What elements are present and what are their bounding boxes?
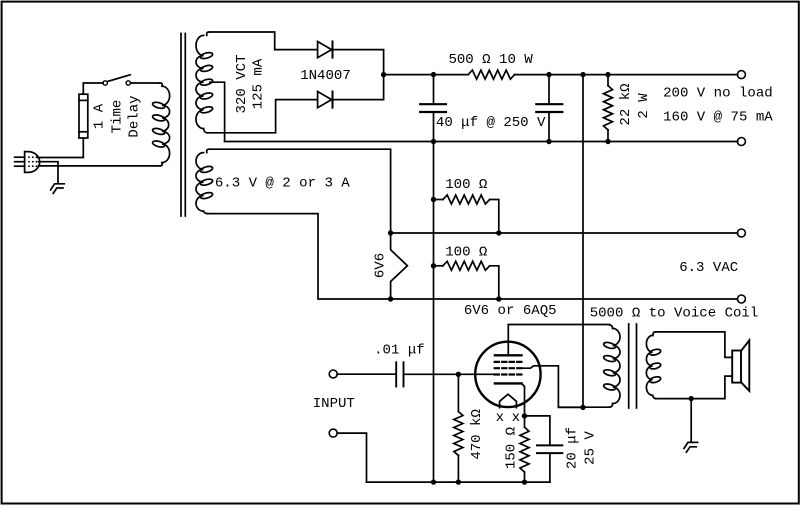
svg-text:470 kΩ: 470 kΩ bbox=[469, 409, 485, 460]
wire HV top to diode D1 bbox=[209, 32, 317, 50]
label 22 kΩ 2 W bbox=[618, 83, 652, 126]
svg-text:125 mA: 125 mA bbox=[250, 58, 266, 109]
wire screen feed vertical bbox=[582, 75, 584, 408]
node R2 bottom bbox=[605, 139, 610, 144]
svg-text:150 Ω: 150 Ω bbox=[504, 426, 520, 469]
wire plug neutral to transformer primary bbox=[39, 165, 160, 167]
wire 6.3V bottom lead to heater rail bottom bbox=[207, 214, 737, 299]
svg-text:100 Ω: 100 Ω bbox=[445, 245, 488, 261]
terminal 6.3VAC bottom bbox=[737, 295, 745, 303]
svg-text:1N4007: 1N4007 bbox=[300, 68, 351, 84]
wire D2 to junction bbox=[333, 75, 383, 100]
node cathode junction bbox=[522, 413, 527, 418]
node C1 top bbox=[431, 72, 436, 77]
svg-text:x: x bbox=[496, 410, 504, 426]
svg-text:Delay: Delay bbox=[126, 95, 142, 137]
resistor R5 470k grid leak bbox=[454, 374, 463, 482]
node heater rail bottom left bbox=[388, 296, 393, 301]
wire ground drop to amplifier bus bbox=[433, 142, 435, 483]
wire ground rail bbox=[225, 141, 738, 143]
svg-text:6.3 VAC: 6.3 VAC bbox=[679, 260, 738, 276]
wire plug hot to fuse bbox=[38, 138, 84, 158]
output terminal B+ bbox=[737, 71, 745, 79]
svg-text:160 V @ 75 mA: 160 V @ 75 mA bbox=[663, 109, 773, 125]
node R4 left bbox=[431, 263, 436, 268]
output terminal ground bbox=[737, 138, 745, 146]
resistor R2 22k bleeder bbox=[604, 75, 613, 142]
svg-text:22 kΩ: 22 kΩ bbox=[618, 83, 634, 126]
T1 high voltage secondary 320 VCT bbox=[196, 32, 213, 133]
wire B+ top rail (right of R1) bbox=[515, 74, 738, 76]
svg-text:500 Ω 10 W: 500 Ω 10 W bbox=[448, 52, 533, 68]
node R3 left bbox=[431, 197, 436, 202]
svg-text:6V6: 6V6 bbox=[372, 253, 388, 278]
T2 core bbox=[629, 324, 637, 408]
resistor R1 500 ohm bbox=[468, 70, 514, 79]
wire speaker ground bbox=[690, 399, 692, 442]
fuse F1 bbox=[79, 94, 88, 138]
resistor R4 100 ohm bbox=[434, 261, 499, 299]
label 20 μf 25 V bbox=[565, 427, 599, 469]
diode D2 1N4007 bbox=[318, 92, 333, 108]
svg-text:2 W: 2 W bbox=[636, 93, 652, 119]
wire center tap to ground rail bbox=[210, 82, 225, 141]
heater connection marks bbox=[496, 410, 521, 426]
wire plug ground bbox=[39, 162, 59, 184]
wire T2 secondary bottom to speaker bbox=[656, 376, 733, 399]
tube V1 plate bbox=[495, 354, 522, 356]
capacitor C4 20uF bypass bbox=[525, 416, 563, 482]
wire HV bottom to diode D2 bbox=[207, 100, 317, 133]
resistor R3 100 ohm bbox=[434, 195, 499, 233]
wire J2 to ground bus bbox=[337, 433, 366, 482]
svg-text:1 A: 1 A bbox=[91, 103, 107, 129]
input terminal J2 bbox=[329, 429, 337, 437]
output transformer T2 primary bbox=[603, 325, 620, 407]
svg-text:INPUT: INPUT bbox=[313, 396, 355, 412]
node heater rail top left bbox=[388, 230, 393, 235]
node bus / C1 line bbox=[431, 479, 436, 484]
node grid / R5 bbox=[456, 372, 461, 377]
tube V1 cathode bbox=[495, 382, 522, 384]
speaker LS1 bbox=[732, 340, 749, 391]
wire screen grid to B+ feed bbox=[522, 366, 581, 408]
label 320 VCT 125 mA bbox=[234, 54, 266, 113]
node bus / R5 bbox=[456, 479, 461, 484]
wire heater rail top bbox=[391, 232, 738, 234]
svg-text:x: x bbox=[512, 410, 520, 426]
T1 filament winding 6.3V bbox=[196, 149, 213, 213]
node R3 to rail bbox=[496, 230, 501, 235]
capacitor C1 40uF bbox=[420, 75, 446, 142]
node R2 top bbox=[605, 72, 610, 77]
tube V1 envelope bbox=[475, 342, 540, 407]
node screen feed / OT primary bbox=[580, 405, 585, 410]
terminal 6.3VAC top bbox=[737, 229, 745, 237]
wire cap to grid bbox=[404, 373, 494, 375]
svg-text:40 μf @ 250 V: 40 μf @ 250 V bbox=[436, 115, 546, 131]
AC plug bbox=[15, 152, 40, 173]
wire cathode lead bbox=[522, 383, 525, 416]
T2 secondary bbox=[646, 332, 661, 399]
node speaker ground bbox=[689, 396, 694, 401]
transformer T1 core bbox=[181, 34, 185, 217]
node R4 to rail bbox=[496, 296, 501, 301]
capacitor C2 40uF bbox=[536, 75, 562, 142]
wire T2 secondary top to speaker bbox=[656, 332, 733, 358]
wire T2 primary bottom to node bbox=[558, 406, 609, 408]
wire J1 to coupling cap bbox=[337, 373, 395, 375]
svg-text:6.3 V @ 2 or 3 A: 6.3 V @ 2 or 3 A bbox=[215, 176, 350, 192]
svg-text:.01 μf: .01 μf bbox=[374, 342, 425, 358]
6V6 heater element bbox=[391, 233, 408, 299]
tube V1 heater bbox=[500, 394, 517, 407]
svg-text:20 μf: 20 μf bbox=[565, 427, 581, 469]
node rectifier junction bbox=[381, 72, 386, 77]
transformer T1 primary winding bbox=[152, 83, 170, 166]
svg-text:6V6 or 6AQ5: 6V6 or 6AQ5 bbox=[464, 303, 557, 319]
svg-text:100 Ω: 100 Ω bbox=[445, 177, 488, 193]
chassis ground at plug bbox=[51, 184, 65, 194]
resistor R6 150 ohm cathode bbox=[520, 416, 529, 482]
wire fuse to switch bbox=[83, 83, 103, 94]
wire switch to primary bbox=[131, 82, 160, 84]
wire ground bus bbox=[367, 481, 550, 483]
diode D1 1N4007 bbox=[318, 42, 333, 58]
tube V1 grids bbox=[495, 362, 522, 375]
capacitor C3 .01uF coupling bbox=[396, 362, 403, 386]
chassis ground at speaker bbox=[684, 442, 698, 452]
input terminal J1 bbox=[329, 370, 337, 378]
wire plate lead bbox=[508, 325, 610, 356]
svg-text:200 V no load: 200 V no load bbox=[663, 86, 773, 102]
label 1 A Time Delay bbox=[91, 95, 142, 137]
wire D1 to junction bbox=[333, 50, 383, 75]
svg-text:320 VCT: 320 VCT bbox=[234, 54, 250, 113]
switch S1 bbox=[103, 75, 131, 85]
node C2 top bbox=[546, 72, 551, 77]
node C1 bottom bbox=[431, 139, 436, 144]
node screen feed top bbox=[580, 72, 585, 77]
node C2 bottom bbox=[546, 139, 551, 144]
node bus / R6 bbox=[522, 479, 527, 484]
svg-text:5000 Ω to Voice Coil: 5000 Ω to Voice Coil bbox=[590, 306, 759, 322]
svg-text:25 V: 25 V bbox=[583, 431, 599, 465]
svg-text:Time: Time bbox=[110, 100, 126, 134]
wire 6.3V top lead down to heater rail bbox=[209, 149, 390, 233]
wire B+ top rail (left of R1) bbox=[384, 74, 469, 76]
